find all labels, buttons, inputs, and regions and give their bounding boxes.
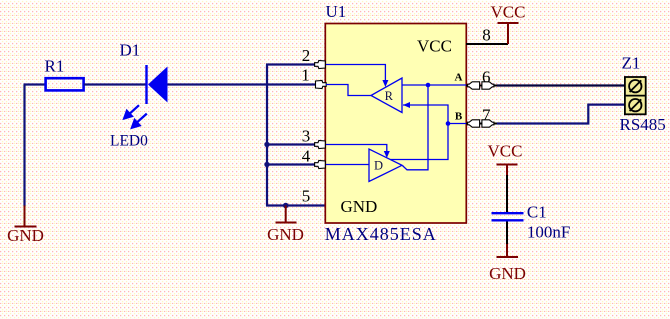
svg-text:GND: GND (341, 197, 378, 216)
wire: R1 to LED (84, 83, 146, 85)
LED emission arrows (124, 105, 147, 127)
wire: vertical bus joining pins 2,3,4,5 (266, 65, 268, 206)
junction on bus at pin4 (264, 162, 269, 167)
internal: wire pin3 to D enable (326, 145, 387, 154)
wire: left vertical from R1 down to GND (23, 85, 25, 207)
wire: pin2 (266, 63, 315, 65)
svg-text:R: R (385, 89, 394, 103)
wire: VCC to C1 top (506, 175, 508, 212)
resistor R1 (46, 78, 84, 90)
svg-text:LED0: LED0 (110, 133, 148, 150)
svg-text:A: A (455, 72, 463, 84)
svg-text:Z1: Z1 (622, 54, 641, 73)
LED D1 (145, 65, 167, 104)
internal: wire B net to pin7 (448, 123, 466, 125)
internal: junction A (426, 83, 431, 88)
internal: wire A net down to D output (403, 85, 429, 170)
svg-text:MAX485ESA: MAX485ESA (325, 224, 437, 244)
wire: pin5 (266, 204, 326, 206)
op-amp U1 chip body MAX485ESA (325, 24, 466, 224)
internal: wire pin1 to R output (326, 85, 371, 96)
wire: pin3 (266, 143, 315, 145)
svg-text:4: 4 (302, 147, 311, 166)
svg-text:R1: R1 (45, 57, 65, 76)
wire: pin4 (266, 163, 315, 165)
junction on bus at pin3 (264, 142, 269, 147)
internal: wire R input1 / A net (402, 84, 466, 86)
svg-text:B: B (455, 111, 463, 123)
internal: wire R input2 / B net (391, 105, 449, 160)
svg-text:8: 8 (482, 26, 491, 45)
svg-text:3: 3 (302, 127, 311, 146)
svg-text:2: 2 (302, 46, 311, 65)
svg-text:VCC: VCC (491, 3, 526, 22)
pin 2 arrow (input) (315, 60, 326, 68)
pin 7 lead and IO arrows (466, 123, 497, 125)
wire: pin7 to Z1 terminal 2 (497, 105, 625, 124)
ground (left) (15, 206, 37, 227)
svg-text:5: 5 (302, 187, 311, 206)
wire: C1 bottom to GND (506, 222, 508, 246)
junction GND tee at pin5 (283, 203, 289, 209)
svg-text:GND: GND (489, 264, 526, 283)
svg-text:D: D (374, 159, 383, 173)
internal: junction B (446, 121, 451, 126)
pin 3 arrow (input) (315, 140, 326, 148)
pin 8 lead (466, 43, 508, 45)
svg-text:VCC: VCC (488, 142, 523, 161)
svg-text:GND: GND (267, 225, 304, 244)
ground (below C1) (497, 244, 519, 257)
svg-text:D1: D1 (120, 41, 141, 60)
svg-text:GND: GND (7, 226, 44, 245)
svg-text:100nF: 100nF (527, 223, 570, 242)
connector Z1 (625, 77, 646, 114)
power VCC (mid, for C1) (497, 165, 518, 177)
pin 4 arrow (input) (315, 160, 326, 168)
wire: pin6 to Z1 terminal 1 (497, 84, 625, 86)
svg-text:RS485: RS485 (620, 115, 666, 134)
internal: wire pin2 to R enable (326, 65, 385, 83)
pin 1 arrow (output) (316, 80, 327, 88)
svg-text:VCC: VCC (417, 37, 452, 56)
svg-text:U1: U1 (326, 2, 347, 21)
terminal 2 (629, 99, 641, 111)
svg-text:1: 1 (301, 66, 310, 85)
capacitor C1 (492, 213, 524, 220)
internal: wire pin4 to D input (326, 164, 369, 166)
pin 6 lead and IO arrows (466, 85, 497, 87)
internal: driver triangle D (369, 149, 402, 182)
wire: R1 left lead (24, 83, 45, 85)
ground (pin5) (276, 206, 297, 223)
terminal 1 (629, 80, 641, 92)
internal: receiver triangle R (371, 78, 402, 113)
power VCC (top) (498, 23, 519, 44)
svg-text:C1: C1 (527, 203, 547, 222)
wire: LED to pin1 of U1 (168, 83, 317, 85)
